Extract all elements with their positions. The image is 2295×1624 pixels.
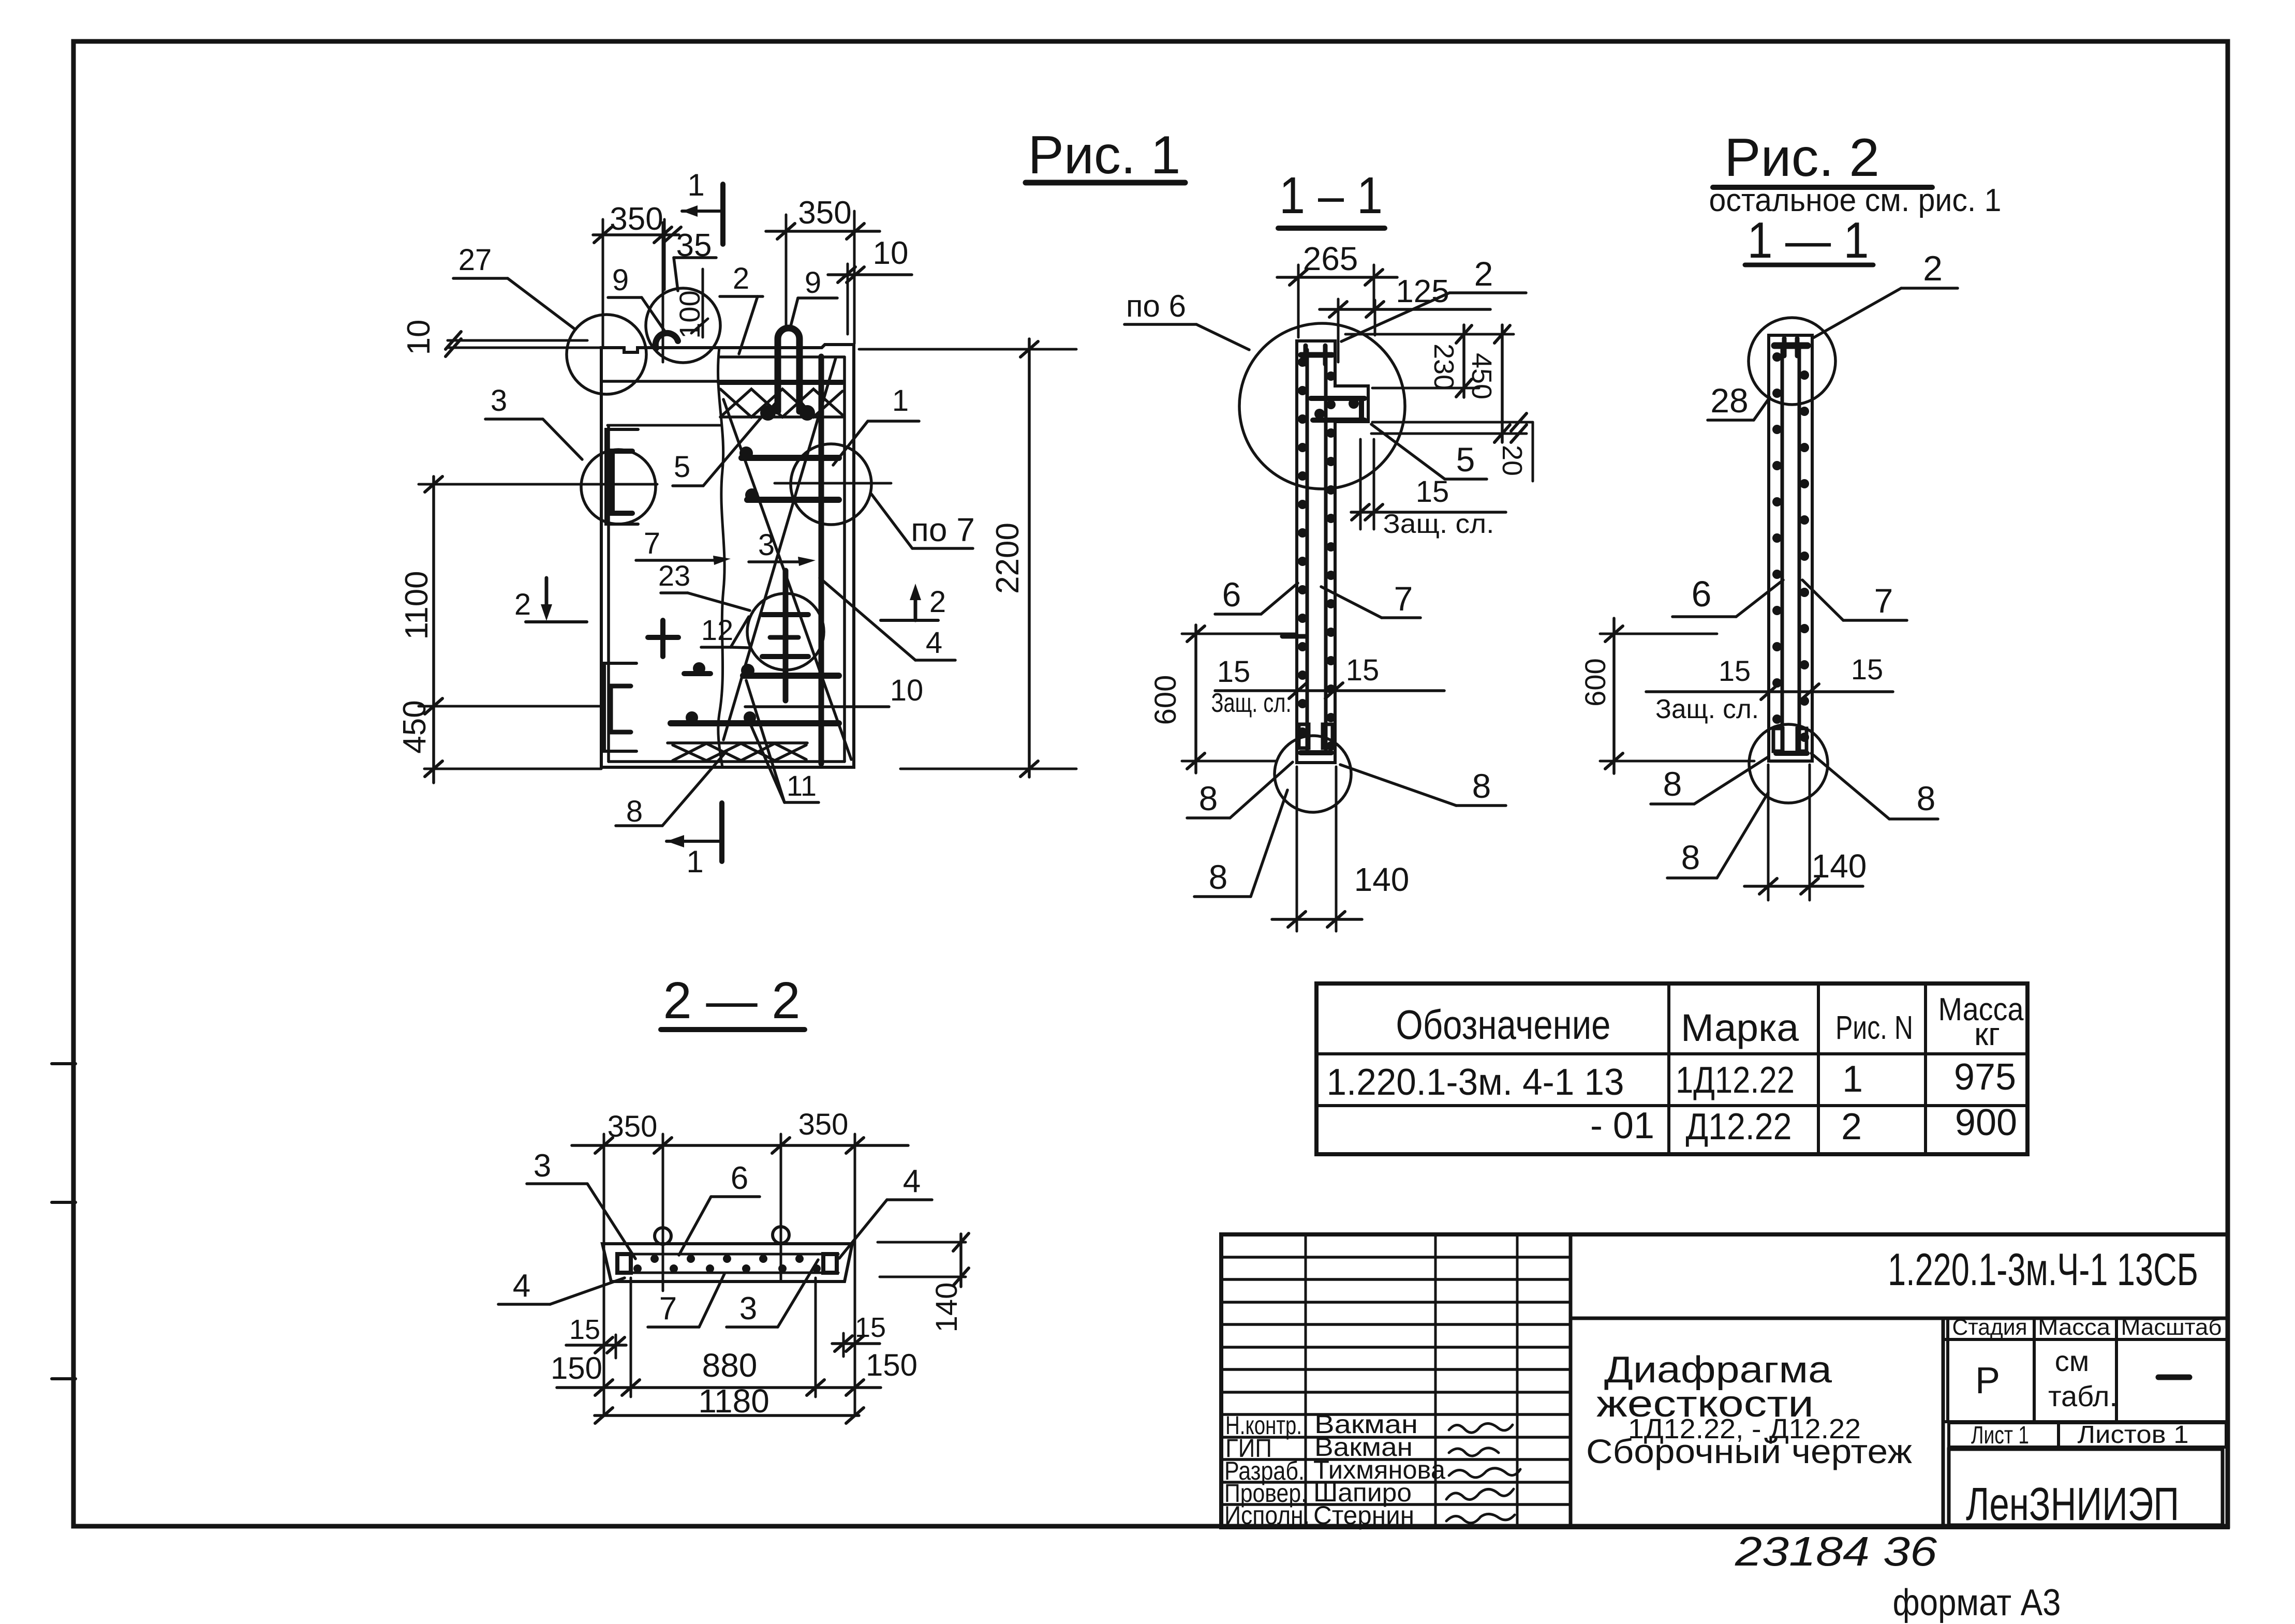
- bottom cage bar: [1776, 751, 1807, 756]
- tick on 100: [691, 319, 708, 333]
- svg-text:9: 9: [805, 266, 821, 300]
- title block outer: [1221, 1234, 2228, 1527]
- bar mark on left edge: [1282, 634, 1306, 639]
- svg-text:27: 27: [458, 243, 492, 277]
- svg-text:2: 2: [514, 588, 531, 621]
- svg-text:140: 140: [930, 1283, 964, 1333]
- label 8: [616, 751, 727, 828]
- dim 140: [1744, 765, 1867, 900]
- label 12: [701, 614, 749, 648]
- hook detail circle: [646, 288, 720, 363]
- label 6: [1215, 575, 1298, 614]
- svg-text:23184 36: 23184 36: [1735, 1528, 1937, 1574]
- cage dots bottom: [633, 1264, 821, 1273]
- svg-text:8: 8: [626, 795, 643, 828]
- cage dots top: [650, 1255, 804, 1263]
- svg-text:9: 9: [612, 263, 629, 297]
- label 7: [636, 527, 731, 565]
- subtitle остальное см рис 1: [1709, 183, 2002, 218]
- label 28: [1708, 381, 1770, 420]
- section marker 2 right: [881, 584, 946, 620]
- svg-text:3: 3: [491, 384, 507, 418]
- svg-text:7: 7: [659, 1291, 677, 1327]
- svg-text:1180: 1180: [698, 1382, 769, 1420]
- short bar 11a: [684, 671, 710, 676]
- big X brace a: [723, 399, 851, 759]
- svg-text:Защ. сл.: Защ. сл.: [1383, 509, 1494, 539]
- svg-text:230: 230: [1428, 344, 1459, 390]
- section marker 2 left: [514, 578, 587, 622]
- svg-text:350: 350: [798, 195, 851, 231]
- label 9 right: [790, 266, 837, 328]
- panel outline: [601, 345, 854, 767]
- stamp number handwritten: [1735, 1528, 1937, 1574]
- hook anchor end: [656, 333, 678, 348]
- svg-text:7: 7: [644, 527, 660, 560]
- end bar left: [617, 1254, 631, 1273]
- svg-text:8: 8: [1472, 767, 1491, 805]
- signature grid verticals: [1305, 1234, 1307, 1527]
- svg-text:2: 2: [1474, 255, 1493, 293]
- table row 2: [1590, 1102, 2017, 1148]
- svg-text:Сборочный чертеж: Сборочный чертеж: [1586, 1432, 1912, 1470]
- dim 125: [1320, 274, 1490, 362]
- svg-text:см: см: [2055, 1345, 2090, 1377]
- svg-text:350: 350: [610, 201, 663, 237]
- table header texts: [1396, 992, 2024, 1052]
- svg-text:1: 1: [687, 168, 704, 202]
- cage bottom line: [617, 1272, 838, 1274]
- dim 15 bottom cover: [1211, 653, 1445, 718]
- svg-text:4: 4: [926, 626, 942, 660]
- svg-text:1Д12.22: 1Д12.22: [1676, 1060, 1795, 1101]
- stirrup dots right: [1800, 370, 1809, 742]
- svg-text:1 – 1: 1 – 1: [1279, 167, 1383, 225]
- top lattice: [720, 389, 842, 417]
- label po7: [871, 494, 975, 548]
- detail circle po7: [791, 444, 871, 525]
- dim 1180: [595, 1382, 864, 1423]
- svg-text:Лист 1: Лист 1: [1971, 1422, 2029, 1449]
- svg-text:2200: 2200: [990, 523, 1026, 594]
- org name: [1949, 1449, 2223, 1525]
- bottom hook right: [1797, 728, 1807, 751]
- crossbar a: [762, 612, 808, 617]
- title 2-2: [663, 972, 801, 1030]
- label 2 top: [720, 262, 763, 354]
- step cage dots: [1349, 398, 1359, 409]
- lifting loop 9: [771, 328, 807, 412]
- upper recess outer: [606, 429, 638, 524]
- svg-text:Рис. N: Рис. N: [1835, 1009, 1913, 1046]
- doc number text: [1888, 1244, 2198, 1295]
- label 4 left: [498, 1268, 625, 1304]
- svg-text:28: 28: [1710, 381, 1748, 420]
- svg-text:8: 8: [1917, 779, 1936, 817]
- signature rows text: [1224, 1410, 1445, 1530]
- svg-text:1.220.1-3м. 4-1 13: 1.220.1-3м. 4-1 13: [1327, 1062, 1624, 1103]
- label 11: [746, 680, 819, 802]
- label 6: [679, 1160, 760, 1255]
- dim 100 rotated: [673, 290, 706, 338]
- label 8 right: [1811, 753, 1938, 819]
- extension through hook circle: [662, 222, 664, 362]
- svg-text:2: 2: [1923, 249, 1943, 288]
- svg-text:Рис. 1: Рис. 1: [1028, 125, 1181, 185]
- label 7: [1321, 579, 1420, 618]
- bottom hook left: [1299, 724, 1309, 748]
- svg-text:2: 2: [929, 585, 946, 619]
- svg-text:450: 450: [397, 700, 433, 753]
- lower recess inner: [611, 686, 631, 732]
- top band line a: [601, 380, 720, 383]
- stirrup dots left: [1772, 352, 1782, 724]
- svg-text:5: 5: [674, 450, 690, 484]
- cage bar right: [1798, 346, 1801, 751]
- svg-text:10: 10: [401, 320, 437, 355]
- rebar bar 10 lower: [671, 720, 839, 726]
- rebar bar 1 lower: [747, 497, 839, 503]
- svg-text:формат А3: формат А3: [1893, 1582, 2061, 1623]
- svg-text:20: 20: [1497, 445, 1528, 476]
- label 8 right: [1340, 765, 1506, 806]
- svg-text:3: 3: [534, 1148, 551, 1184]
- label 9 left: [608, 263, 667, 334]
- label 10: [745, 674, 923, 707]
- svg-text:975: 975: [1954, 1056, 2016, 1098]
- dim 1100 and 450: [397, 476, 657, 783]
- cage inner right: [1324, 350, 1328, 751]
- step cage bar bottom: [1313, 418, 1365, 423]
- svg-text:по 6: по 6: [1126, 289, 1186, 323]
- svg-text:Стадия: Стадия: [1952, 1315, 2027, 1340]
- svg-text:2 — 2: 2 — 2: [663, 972, 801, 1030]
- label 5: [673, 414, 764, 486]
- stage grid: [1946, 1318, 1949, 1422]
- svg-text:1 — 1: 1 — 1: [1748, 212, 1869, 269]
- svg-text:600: 600: [1579, 658, 1611, 706]
- svg-text:15: 15: [1851, 653, 1883, 686]
- label 8 left: [1187, 762, 1293, 818]
- bottom hook right: [1323, 724, 1332, 748]
- cage top stubs: [1304, 346, 1308, 364]
- svg-text:Защ. сл.: Защ. сл.: [1211, 688, 1292, 718]
- crossbar b: [770, 635, 798, 640]
- title 1-1: [1748, 212, 1869, 269]
- svg-text:кг: кг: [1974, 1017, 2000, 1052]
- dim 10 right: [828, 235, 912, 334]
- dim 140 rotated: [878, 1233, 969, 1332]
- stirrup dots right: [1326, 371, 1336, 751]
- rebar bar 1 upper: [742, 455, 839, 461]
- detail circle 12: [747, 593, 824, 670]
- svg-text:Обозначение: Обозначение: [1396, 1002, 1611, 1048]
- svg-text:8: 8: [1199, 779, 1218, 817]
- svg-text:2: 2: [733, 262, 749, 295]
- svg-text:8: 8: [1209, 858, 1228, 896]
- detail circle bottom: [1275, 736, 1351, 812]
- label 4: [820, 578, 955, 660]
- svg-text:Д12.22: Д12.22: [1686, 1106, 1792, 1148]
- plus mark 23: [648, 620, 678, 657]
- svg-text:Листов 1: Листов 1: [2078, 1421, 2189, 1449]
- svg-text:150: 150: [551, 1351, 602, 1385]
- dim 600: [1149, 625, 1297, 773]
- svg-text:150: 150: [866, 1348, 917, 1382]
- label 3 mid: [749, 528, 816, 566]
- svg-text:12: 12: [701, 614, 733, 646]
- label 23: [658, 559, 750, 610]
- title 1-1: [1279, 167, 1383, 225]
- loop section left: [655, 1228, 671, 1244]
- section marker 1 top: [682, 168, 723, 244]
- svg-text:1: 1: [1842, 1059, 1863, 1100]
- table grid: [1316, 984, 2027, 1154]
- svg-text:350: 350: [608, 1110, 658, 1143]
- svg-text:23: 23: [658, 559, 690, 592]
- format note: [1893, 1582, 2061, 1623]
- svg-text:- 01: - 01: [1590, 1105, 1654, 1146]
- svg-text:7: 7: [1394, 579, 1413, 618]
- top band line b: [608, 424, 720, 427]
- svg-text:Масштаб: Масштаб: [2121, 1315, 2222, 1340]
- bottom cage bar: [1300, 750, 1331, 755]
- masshtab dash: [2158, 1375, 2189, 1380]
- big X brace b: [723, 358, 836, 740]
- detail circle bottom: [1749, 724, 1828, 803]
- label 3 top: [527, 1148, 635, 1259]
- svg-text:3: 3: [758, 528, 775, 562]
- dim 230 rotated: [1345, 325, 1514, 397]
- label 7: [1802, 580, 1907, 620]
- svg-text:6: 6: [731, 1160, 748, 1196]
- dim 35: [674, 228, 716, 291]
- cage top stubs: [1782, 338, 1787, 356]
- label 5: [1371, 424, 1487, 479]
- svg-text:7: 7: [1874, 582, 1893, 620]
- svg-text:880: 880: [702, 1347, 758, 1384]
- upper recess inner: [612, 451, 632, 513]
- middle vertical bar 12: [783, 571, 789, 701]
- svg-text:11: 11: [787, 769, 817, 802]
- label 27: [453, 243, 575, 330]
- loop end dot right: [799, 405, 815, 421]
- svg-text:3: 3: [739, 1291, 757, 1327]
- detail circle 27: [567, 315, 646, 394]
- svg-text:5: 5: [1456, 440, 1475, 479]
- cage top line: [617, 1253, 838, 1256]
- svg-text:Масса: Масса: [2038, 1315, 2111, 1340]
- right vertical bar 3: [819, 356, 824, 764]
- label 1: [833, 384, 919, 465]
- svg-text:1: 1: [892, 384, 909, 418]
- svg-text:100: 100: [673, 290, 706, 338]
- step cage bar top: [1311, 396, 1365, 401]
- dim 15 upper cover: [1351, 439, 1506, 539]
- svg-text:6: 6: [1222, 575, 1241, 614]
- label 7: [648, 1274, 724, 1327]
- svg-text:Стернин: Стернин: [1313, 1501, 1414, 1530]
- panel inner left line: [607, 426, 610, 762]
- svg-text:450: 450: [1466, 353, 1497, 399]
- signature grid horizontals: [1221, 1257, 1571, 1504]
- cage inner left: [1306, 350, 1309, 751]
- detail circle top: [1239, 323, 1405, 489]
- crossbar c: [762, 654, 808, 659]
- dim 140: [1272, 767, 1409, 931]
- doc number cell line: [1571, 1317, 2228, 1320]
- detail circle 3: [581, 450, 656, 524]
- svg-text:10: 10: [890, 674, 924, 707]
- bottom hook left: [1773, 728, 1783, 751]
- section marker 1 bottom: [667, 803, 722, 879]
- svg-text:Защ. сл.: Защ. сл.: [1655, 694, 1759, 724]
- extension right of hook: [702, 269, 704, 337]
- fold mark 1: [52, 1062, 76, 1065]
- name text: [1586, 1349, 1912, 1470]
- dim 265: [1277, 240, 1397, 337]
- dim 600: [1579, 618, 1754, 773]
- svg-text:8: 8: [1663, 765, 1682, 803]
- svg-text:6: 6: [1692, 574, 1712, 614]
- FIG2 : section 1-1 variant: [1579, 128, 2002, 900]
- label 8 bottom left: [1194, 790, 1287, 897]
- dim 350 right: [766, 195, 880, 344]
- slab outline: [602, 1244, 852, 1282]
- svg-text:10: 10: [873, 235, 909, 271]
- TABLE : specification: [1316, 984, 2027, 1154]
- svg-text:Марка: Марка: [1681, 1006, 1799, 1049]
- dim 15 right: [832, 1312, 886, 1357]
- dim 450 rotated: [1371, 325, 1527, 442]
- svg-text:265: 265: [1303, 240, 1358, 277]
- bottom lattice: [668, 743, 807, 761]
- signature scribbles: [1446, 1423, 1520, 1523]
- label 3 bottom: [727, 1260, 818, 1327]
- table row 1: [1327, 1056, 2017, 1103]
- svg-text:15: 15: [1217, 655, 1251, 689]
- lower recess outer: [604, 663, 636, 751]
- cage top bar: [1774, 342, 1808, 349]
- dim 150 880 150: [551, 1278, 917, 1397]
- svg-text:140: 140: [1354, 861, 1410, 898]
- dim 350 350 top: [572, 1108, 908, 1414]
- list row box: [1949, 1423, 2226, 1447]
- column profile: [1297, 341, 1368, 763]
- line through circle po7: [775, 482, 891, 485]
- svg-text:4: 4: [903, 1164, 921, 1199]
- FIG22 : section 2-2: [498, 972, 969, 1423]
- stirrup dots left: [1298, 357, 1307, 737]
- name cell divider: [1942, 1318, 1945, 1527]
- svg-text:15: 15: [1719, 654, 1751, 687]
- title Рис. 1: [1028, 125, 1181, 185]
- panel inner right line: [843, 357, 846, 762]
- svg-text:Р: Р: [1975, 1360, 2000, 1402]
- svg-text:900: 900: [1955, 1102, 2017, 1143]
- label po6: [1124, 289, 1249, 350]
- svg-text:табл.: табл.: [2048, 1380, 2118, 1412]
- svg-text:Рис. 2: Рис. 2: [1724, 128, 1879, 188]
- label 4 right: [839, 1164, 932, 1258]
- svg-text:4: 4: [513, 1268, 530, 1304]
- inner top line right part: [720, 355, 845, 359]
- svg-text:15: 15: [569, 1314, 600, 1345]
- svg-text:350: 350: [798, 1108, 849, 1141]
- stage values: [1975, 1345, 2118, 1412]
- svg-text:600: 600: [1149, 675, 1182, 725]
- title Рис. 2: [1724, 128, 1879, 188]
- panel inner bottom line: [609, 760, 845, 763]
- svg-text:Исполн.: Исполн.: [1224, 1501, 1310, 1530]
- rebar bar 10 upper: [743, 673, 839, 679]
- FIG11 : section 1-1: [1124, 167, 1533, 931]
- svg-text:по 7: по 7: [911, 511, 975, 548]
- label 3 left: [485, 384, 582, 459]
- svg-text:1100: 1100: [399, 571, 435, 639]
- loop end dot left: [760, 405, 776, 421]
- fold mark 3: [52, 1377, 76, 1380]
- stage header texts: [1952, 1315, 2222, 1340]
- detail circle top: [1749, 318, 1835, 405]
- label 2: [1813, 249, 1958, 338]
- svg-text:15: 15: [1346, 653, 1380, 687]
- svg-text:1: 1: [686, 844, 703, 879]
- break wavy line: [718, 348, 725, 767]
- cage top bar: [1301, 352, 1332, 358]
- column outline: [1769, 335, 1812, 761]
- label 8 bottom: [1667, 793, 1768, 878]
- svg-text:8: 8: [1681, 838, 1700, 876]
- bold top chord bar 2: [719, 380, 842, 385]
- cage bar left: [1781, 346, 1784, 751]
- label 2: [1341, 255, 1526, 341]
- label 6: [1672, 574, 1783, 617]
- loop section right: [773, 1227, 789, 1243]
- fold mark 2: [52, 1201, 76, 1204]
- dim 350 left: [593, 201, 681, 348]
- dim 15 left: [566, 1314, 626, 1358]
- step cage vertical: [1359, 398, 1364, 420]
- TITLEBLOCK: [1221, 1234, 2228, 1623]
- dim 15 cover: [1646, 653, 1893, 724]
- dim 10 left rotated: [401, 320, 601, 356]
- svg-text:1.220.1-3м.Ч-1 13СБ: 1.220.1-3м.Ч-1 13СБ: [1888, 1244, 2198, 1295]
- dim 2200: [859, 339, 1076, 777]
- svg-text:15: 15: [1416, 475, 1449, 509]
- label 8 left: [1651, 757, 1768, 804]
- svg-text:2: 2: [1841, 1106, 1862, 1148]
- FIG1 : panel elevation: [397, 125, 1185, 879]
- end bar right: [823, 1254, 837, 1273]
- dim 20 rotated: [1372, 413, 1533, 481]
- svg-text:ЛенЗНИИЭП: ЛенЗНИИЭП: [1966, 1479, 2179, 1530]
